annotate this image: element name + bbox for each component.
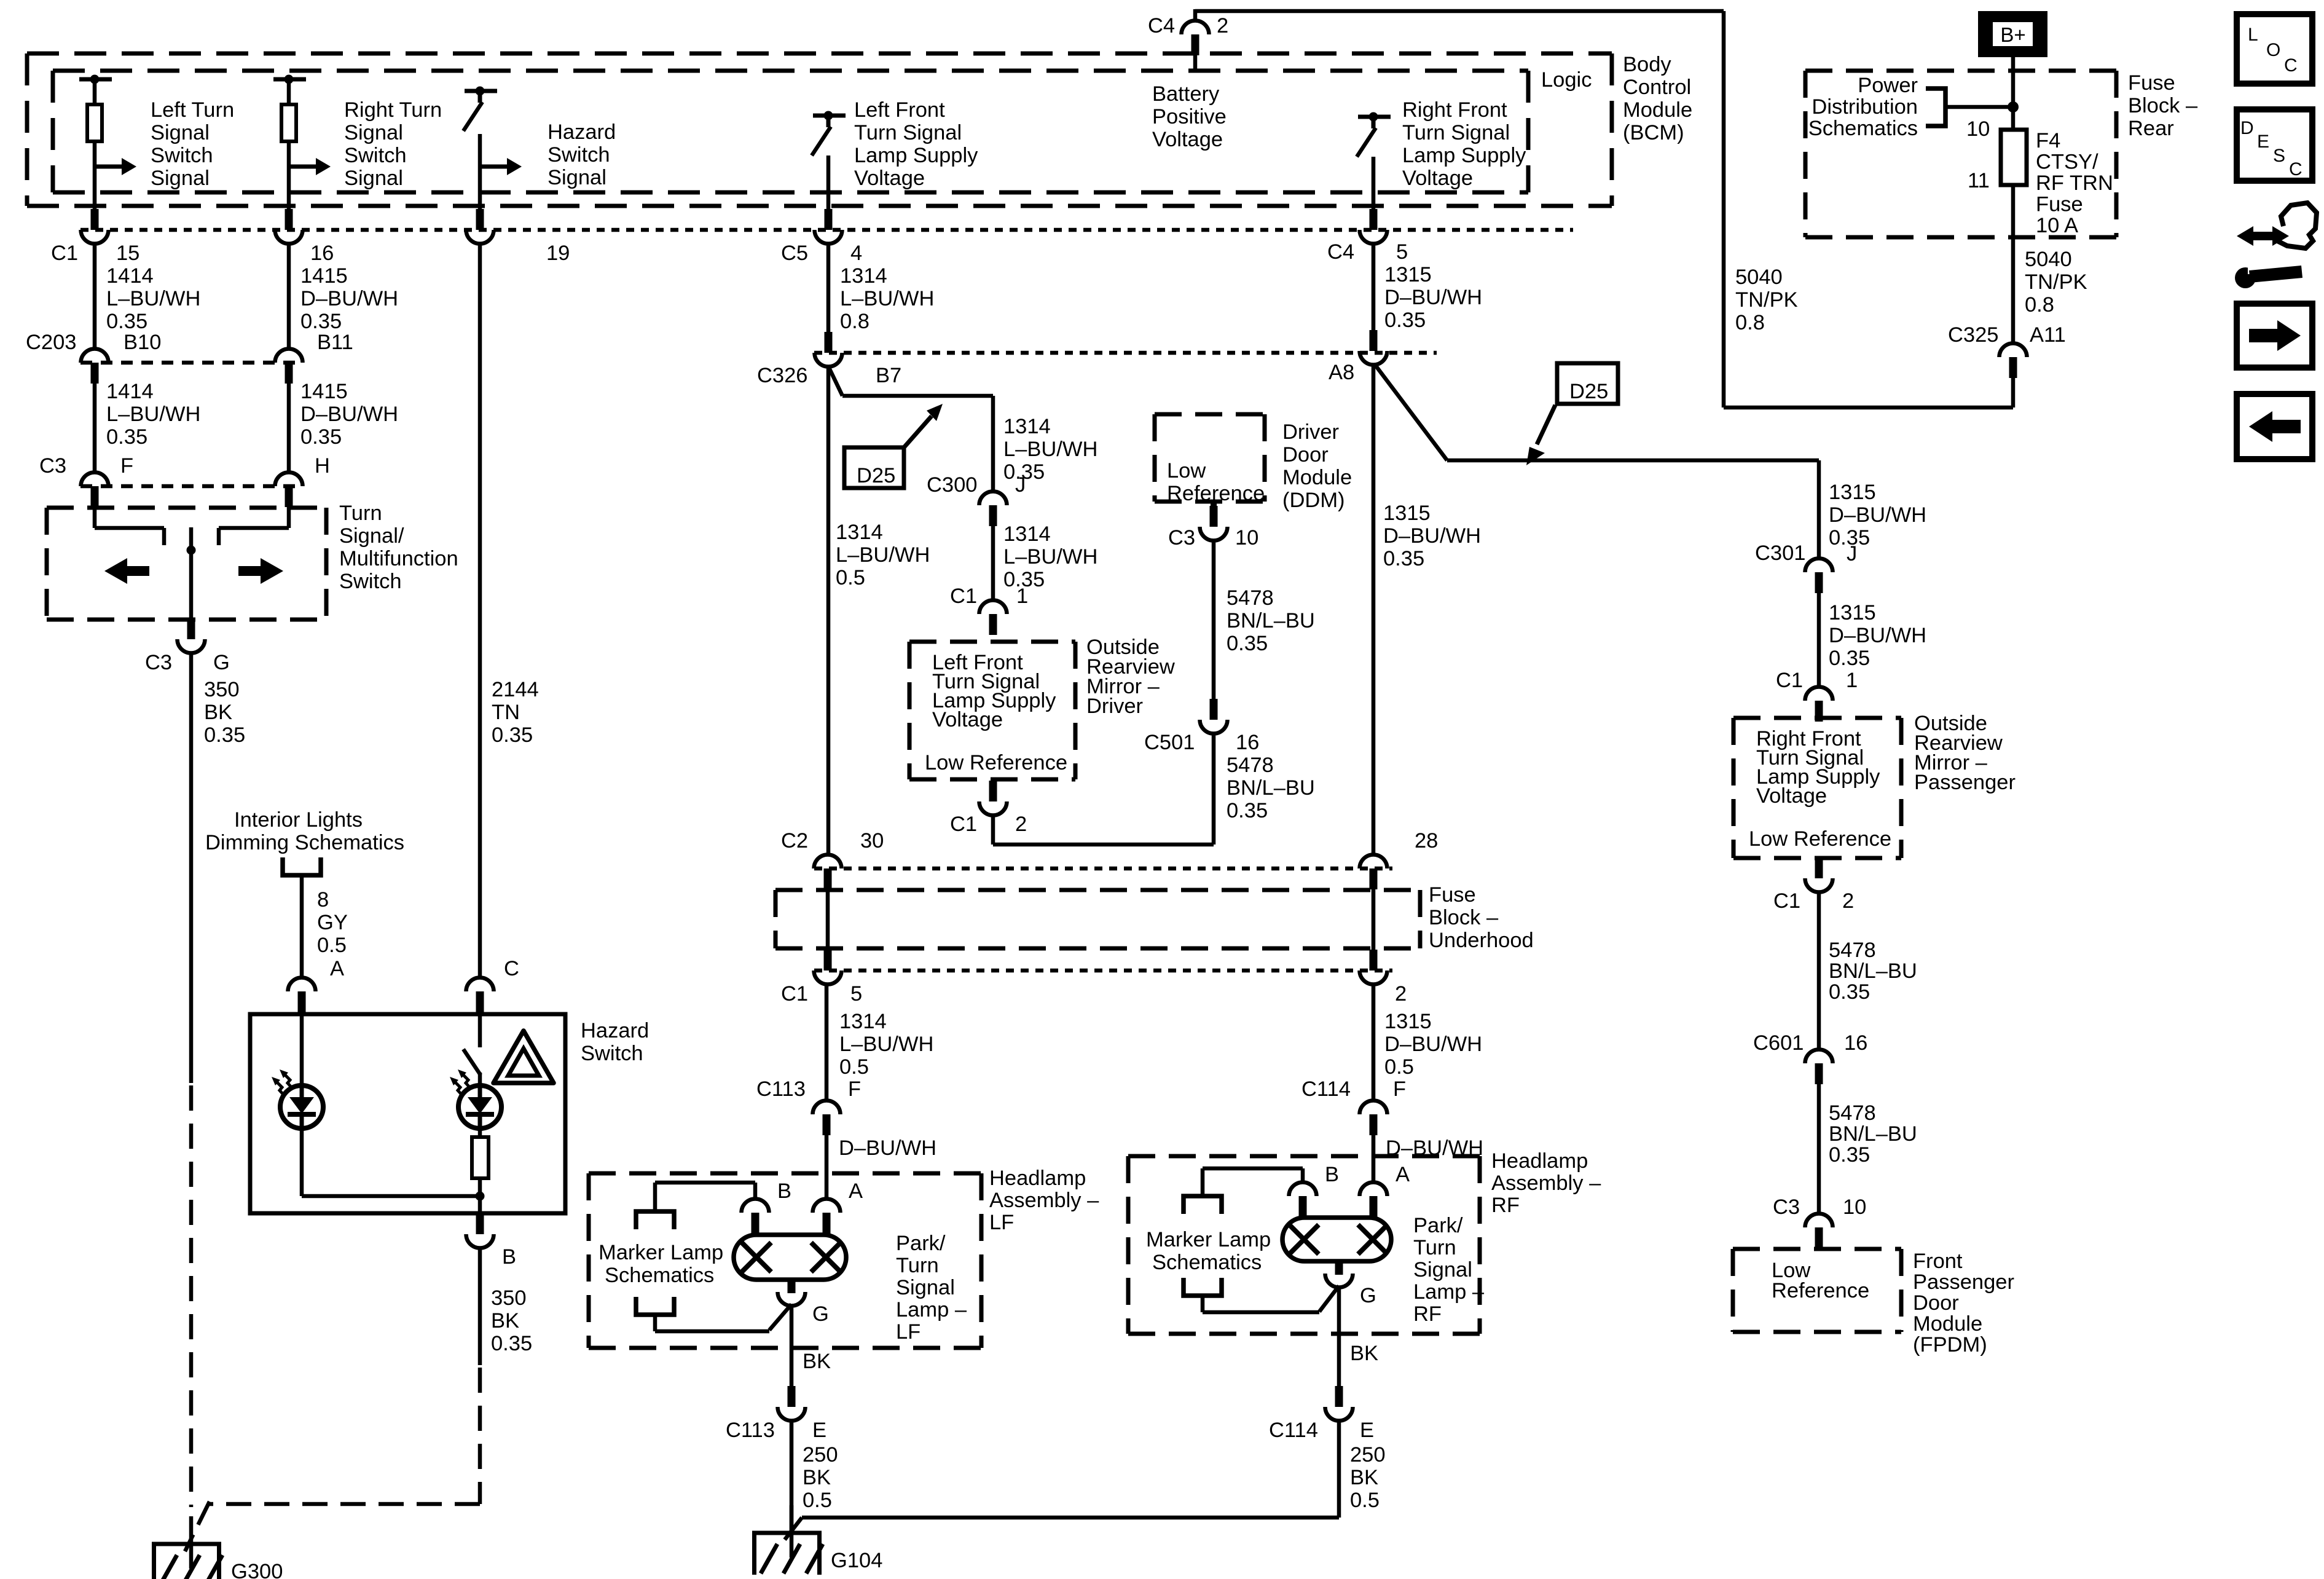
svg-text:BN/L–BU: BN/L–BU [1829,959,1917,983]
svg-text:Switch: Switch [581,1042,643,1065]
svg-text:Schematics: Schematics [1152,1251,1262,1274]
svg-text:G104: G104 [831,1549,882,1572]
svg-text:30: 30 [860,829,884,853]
wire [1301,1168,1305,1182]
svg-text:Marker Lamp: Marker Lamp [1146,1228,1271,1251]
resistor left turn pull-up [87,104,102,141]
svg-text:BK: BK [803,1466,831,1489]
connector C1 pin 2 [989,781,997,801]
arrow left turn indicator [126,566,149,576]
svg-text:1: 1 [1846,669,1858,692]
wire 350 BK [189,653,194,1083]
svg-text:5: 5 [1396,240,1408,264]
svg-text:Voltage: Voltage [1402,167,1473,190]
wire [753,1183,758,1199]
wire BK [1337,1287,1341,1386]
svg-text:Logic: Logic [1541,68,1592,92]
svg-text:5: 5 [850,982,862,1006]
svg-text:LF: LF [989,1211,1014,1234]
svg-text:D–BU/WH: D–BU/WH [300,403,398,426]
wire [93,506,97,528]
svg-text:E: E [812,1419,826,1442]
svg-text:Front: Front [1913,1250,1963,1273]
wire [93,79,97,104]
svg-text:Signal: Signal [151,167,210,190]
ground G104 [752,1531,822,1535]
wire [478,1012,482,1047]
LED hazard indicator right [458,1085,501,1128]
svg-text:(FPDM): (FPDM) [1913,1333,1987,1357]
svg-text:1: 1 [1016,585,1028,608]
svg-text:Signal: Signal [548,166,607,189]
wire [1372,984,1376,1100]
svg-text:B: B [502,1245,516,1269]
svg-text:C113: C113 [726,1419,775,1442]
svg-text:1315: 1315 [1384,263,1432,286]
svg-text:Distribution: Distribution [1812,95,1918,119]
wire [826,889,830,950]
arrow D25 to A8 branch [1537,405,1555,444]
wire [1817,892,1821,1049]
svg-text:0.35: 0.35 [1227,799,1268,822]
svg-text:16: 16 [310,242,334,265]
svg-text:(BCM): (BCM) [1623,121,1684,144]
svg-text:10: 10 [1966,117,1990,141]
svg-text:0.8: 0.8 [840,310,870,333]
svg-text:Turn: Turn [339,502,382,525]
svg-text:D25: D25 [1569,380,1608,403]
D25 reference box 2 [1557,363,1618,404]
wire 1315 D-BU/WH [1372,365,1376,855]
legend back arrow box [2237,394,2312,459]
svg-text:Voltage: Voltage [1756,784,1827,808]
svg-text:0.35: 0.35 [1829,1143,1870,1167]
connector C1 pin 15 [91,209,99,230]
svg-text:2: 2 [1015,813,1027,836]
dashed ground path [189,1085,194,1507]
svg-text:Headlamp: Headlamp [1491,1149,1588,1173]
svg-text:Switch: Switch [548,143,610,167]
Headlamp Assembly RF dashed box [1128,1154,1480,1159]
wire [2011,378,2016,408]
svg-text:Lamp Supply: Lamp Supply [1402,144,1526,167]
svg-text:O: O [2266,40,2280,60]
svg-text:0.8: 0.8 [1735,311,1765,334]
node left turn top junction [79,77,112,82]
connector C1 pin 19 [476,209,484,230]
svg-text:0.35: 0.35 [492,723,533,747]
svg-text:Passenger: Passenger [1914,771,2016,794]
connector hazard pin B [476,1213,484,1234]
svg-text:Underhood: Underhood [1429,929,1534,952]
svg-text:0.35: 0.35 [106,425,147,449]
svg-text:Control: Control [1623,76,1691,99]
wire 250 BK [790,1420,794,1530]
svg-text:Fuse: Fuse [1429,883,1476,907]
svg-text:2: 2 [1395,982,1407,1006]
svg-text:Interior Lights: Interior Lights [234,808,363,832]
svg-text:D–BU/WH: D–BU/WH [1384,286,1482,309]
svg-text:D25: D25 [857,464,895,487]
connector row C2 dotted line [814,867,1392,871]
svg-text:0.5: 0.5 [803,1489,832,1512]
svg-text:C501: C501 [1144,731,1195,754]
svg-text:Switch: Switch [339,570,402,593]
svg-text:Low: Low [1167,459,1206,482]
wire [1375,365,1447,460]
svg-text:Module: Module [1913,1312,1982,1336]
wire [478,1248,482,1365]
svg-text:A11: A11 [2030,323,2066,347]
connector C113 pin F [813,1101,841,1114]
svg-text:0.35: 0.35 [1383,547,1424,570]
svg-text:Block –: Block – [1429,906,1499,929]
svg-text:C3: C3 [145,651,172,674]
svg-text:D–BU/WH: D–BU/WH [1829,624,1926,647]
svg-text:Voltage: Voltage [1152,128,1223,151]
svg-text:C301: C301 [1755,541,1805,565]
svg-text:1415: 1415 [300,380,348,403]
Turn Signal/Multifunction Switch dashed box [47,506,326,510]
svg-text:16: 16 [1236,731,1259,754]
wire [93,141,97,210]
LED hazard indicator left [280,1085,323,1128]
connector C1 pin 1 [1805,687,1833,701]
connector lamp RF pin A [1360,1183,1388,1197]
svg-text:Signal: Signal [896,1276,955,1299]
svg-text:Voltage: Voltage [854,167,925,190]
svg-text:Marker Lamp: Marker Lamp [599,1241,723,1264]
switch right front turn lamp driver [1358,115,1391,119]
svg-text:Block –: Block – [2128,94,2198,117]
reference bracket power distribution [1926,89,1945,126]
svg-text:C114: C114 [1301,1077,1351,1101]
lamp Park/Turn Signal RF [1282,1218,1391,1261]
wire [189,550,194,620]
wire [991,815,995,845]
connector hazard pin A [288,978,316,992]
svg-text:0.5: 0.5 [317,934,347,957]
svg-text:5040: 5040 [1735,266,1783,289]
svg-text:A: A [849,1179,863,1203]
svg-text:B: B [777,1179,791,1203]
switch left front turn lamp driver [813,114,846,118]
connector lamp LF pin B [742,1199,769,1213]
wire 2144 TN [478,243,482,977]
svg-text:0.35: 0.35 [1829,980,1870,1004]
svg-text:28: 28 [1415,829,1438,853]
switch hazard input [465,89,497,93]
arrow D25 to B7 [904,416,932,447]
svg-text:15: 15 [116,242,139,265]
svg-text:BK: BK [803,1350,831,1373]
svg-text:Positive: Positive [1152,105,1227,128]
svg-text:G300: G300 [231,1560,283,1579]
svg-text:Assembly –: Assembly – [989,1189,1099,1212]
svg-text:5478: 5478 [1829,1101,1876,1125]
svg-text:5478: 5478 [1829,939,1876,962]
fuse F4 [2001,130,2027,185]
svg-text:Hazard: Hazard [581,1019,649,1042]
svg-text:Signal: Signal [344,121,403,144]
svg-text:RF: RF [1491,1194,1520,1217]
wire [2011,57,2016,136]
svg-text:0.35: 0.35 [491,1332,532,1355]
connector C300 pin J [979,492,1007,506]
wire BK [790,1305,794,1386]
svg-text:Fuse: Fuse [2036,193,2083,216]
svg-text:E: E [2257,132,2269,152]
svg-text:Lamp –: Lamp – [1413,1280,1485,1304]
wire [1945,105,2013,109]
svg-text:J: J [1847,542,1857,565]
dashed ground path [478,1368,482,1504]
svg-text:0.8: 0.8 [2025,293,2054,317]
svg-text:10: 10 [1235,526,1258,549]
connector C3 pin H [275,473,303,487]
wire [2011,185,2016,343]
battery feed B+ symbol [1978,11,2047,57]
connector C1 pin 1 [979,600,1007,614]
svg-text:BK: BK [491,1309,519,1333]
svg-text:BN/L–BU: BN/L–BU [1227,609,1315,632]
svg-text:Turn Signal: Turn Signal [1402,121,1510,144]
svg-text:S: S [2273,146,2285,166]
svg-text:F: F [1393,1077,1406,1101]
svg-text:0.35: 0.35 [300,425,342,449]
wire [769,1304,791,1330]
svg-text:B+: B+ [2000,23,2025,46]
Body Control Module outer dashed box [27,52,1612,56]
wire 1314 L-BU/WH [826,366,831,855]
svg-text:D–BU/WH: D–BU/WH [1829,503,1926,527]
wire [478,1178,482,1213]
svg-text:B11: B11 [317,331,353,354]
svg-text:19: 19 [546,242,570,265]
connector row C326/A8 dotted line [814,351,1437,355]
svg-text:F4: F4 [2036,129,2060,152]
resistor hazard LED [472,1137,489,1178]
wire [287,79,291,104]
reference bracket marker lamp return RF [1184,1278,1222,1296]
svg-text:A8: A8 [1329,361,1354,384]
wire battery feed loop [1195,9,1724,14]
wire 5478 BN/L-BU [1212,540,1216,699]
svg-text:0.5: 0.5 [1350,1489,1380,1512]
svg-text:Assembly –: Assembly – [1491,1171,1601,1195]
svg-text:1314: 1314 [840,264,887,288]
svg-text:L–BU/WH: L–BU/WH [836,543,930,567]
wire [825,984,829,1100]
svg-text:E: E [1360,1419,1374,1442]
wire [1372,243,1376,331]
wire 8 GY 0.5 [300,875,304,977]
connector A8 [1370,330,1378,351]
legend forward arrow box [2237,304,2312,368]
node hazard ground junction [476,1192,485,1201]
svg-text:1315: 1315 [1829,601,1876,624]
svg-text:Reference: Reference [1772,1279,1869,1302]
Fuse Block Rear dashed box [1805,69,2116,73]
resistor right turn pull-up [281,104,296,141]
svg-text:B10: B10 [124,331,161,354]
svg-text:1315: 1315 [1829,481,1876,504]
svg-text:BN/L–BU: BN/L–BU [1829,1122,1917,1146]
svg-text:(DDM): (DDM) [1282,489,1345,512]
connector C4 pin 2 [1182,21,1209,34]
lamp Park/Turn Signal LF [734,1235,846,1280]
wire [826,243,831,333]
svg-text:Turn Signal: Turn Signal [854,121,962,144]
connector lamp LF pin A [813,1199,841,1213]
wire [287,506,291,528]
svg-text:Module: Module [1623,98,1692,122]
svg-text:0.35: 0.35 [300,310,342,333]
svg-text:16: 16 [1844,1031,1867,1055]
connector lamp RF pin B [1289,1183,1317,1197]
svg-text:250: 250 [803,1443,838,1467]
wire [300,1012,304,1085]
connector hazard pin C [466,978,494,992]
svg-text:Dimming Schematics: Dimming Schematics [205,831,404,854]
svg-text:Driver: Driver [1282,420,1339,444]
connector C1 pin 2 [1370,950,1378,971]
svg-text:C1: C1 [1776,669,1803,692]
svg-text:TN/PK: TN/PK [1735,288,1798,312]
svg-text:Multifunction: Multifunction [339,547,458,570]
svg-text:1314: 1314 [1003,522,1051,546]
svg-text:D–BU/WH: D–BU/WH [839,1136,936,1160]
svg-text:BN/L–BU: BN/L–BU [1227,776,1315,800]
svg-text:TN/PK: TN/PK [2025,270,2087,294]
legend DESC box [2237,109,2312,181]
svg-text:Low Reference: Low Reference [1749,827,1891,851]
switch hazard contact [463,1049,481,1075]
connector C325 pin A11 [2000,344,2027,357]
connector C2 pin 30 [814,855,842,868]
svg-text:LF: LF [896,1320,921,1344]
svg-text:G: G [812,1302,829,1326]
connector C2 pin 28 [1360,855,1388,868]
svg-text:Park/: Park/ [1413,1214,1463,1237]
svg-text:Right Front: Right Front [1402,98,1507,122]
svg-text:C1: C1 [950,813,977,836]
svg-text:C5: C5 [781,242,808,265]
svg-text:Power: Power [1858,74,1918,97]
svg-text:C4: C4 [1148,14,1175,37]
svg-text:A: A [1396,1163,1410,1186]
svg-text:Right Turn: Right Turn [344,98,442,122]
svg-text:10 A: 10 A [2036,214,2078,237]
svg-text:C300: C300 [927,473,977,497]
Hazard Switch box [250,1014,565,1213]
arrow right turn indicator [238,566,262,576]
svg-text:L–BU/WH: L–BU/WH [1003,438,1097,461]
svg-text:C: C [2284,55,2298,76]
node fuse feed junction [2008,101,2019,112]
svg-text:2: 2 [1842,889,1854,913]
svg-text:2144: 2144 [492,678,539,701]
svg-text:D–BU/WH: D–BU/WH [1383,524,1481,548]
wire [478,1128,482,1137]
svg-text:BK: BK [1350,1342,1378,1365]
svg-text:C: C [504,957,519,980]
reference bracket marker lamp return LF [636,1297,674,1315]
Driver Door Module dashed box [1155,412,1265,417]
Front Passenger Door Module dashed box [1733,1247,1901,1251]
svg-text:C1: C1 [950,585,977,608]
svg-text:Door: Door [1913,1291,1959,1315]
svg-text:G: G [1360,1284,1376,1307]
reference bracket interior lights [283,857,321,875]
svg-text:D: D [2240,118,2254,138]
svg-text:L–BU/WH: L–BU/WH [1003,545,1097,569]
connector C203 pin B10 [81,349,109,363]
connector row C3 dotted line [80,484,303,489]
svg-text:Fuse: Fuse [2128,71,2175,95]
wire [828,366,842,396]
svg-text:C3: C3 [39,454,66,478]
svg-text:G: G [213,651,230,674]
connector lamp LF pin G [788,1280,796,1293]
svg-text:F: F [848,1077,861,1101]
svg-text:1414: 1414 [106,264,154,288]
wire [1372,1135,1376,1183]
svg-text:350: 350 [491,1286,527,1310]
svg-text:C601: C601 [1753,1031,1804,1055]
svg-text:C114: C114 [1269,1419,1318,1442]
svg-text:2: 2 [1217,14,1228,37]
legend pointer icon [2237,226,2289,246]
svg-text:5040: 5040 [2025,248,2072,271]
svg-text:0.5: 0.5 [839,1055,869,1079]
svg-text:Module: Module [1282,466,1352,489]
wire [1193,9,1198,20]
svg-text:GY: GY [317,911,348,934]
node right turn top junction [273,77,306,82]
wire [478,1073,482,1085]
arrow left turn signal output [95,165,124,169]
wire [300,1128,304,1196]
ground G300 [152,1542,221,1546]
Headlamp Assembly LF dashed box [589,1171,981,1176]
svg-text:Schematics: Schematics [1808,117,1918,140]
wire [478,134,482,210]
svg-text:A: A [330,957,344,980]
wire [991,526,995,600]
svg-text:0.5: 0.5 [836,566,865,589]
svg-text:0.35: 0.35 [1227,632,1268,655]
wire [287,384,291,472]
connector C1 pin 16 [285,209,293,230]
svg-text:0.35: 0.35 [204,723,245,747]
connector row C1 dotted line [814,969,1392,973]
Outside Rearview Mirror Driver dashed box [909,640,1075,644]
reference bracket marker lamp feed LF [636,1211,674,1229]
connector C3 pin F [81,473,109,487]
svg-text:Driver: Driver [1086,695,1143,718]
svg-text:C3: C3 [1773,1195,1800,1219]
svg-text:D–BU/WH: D–BU/WH [300,287,398,310]
connector C5 pin 4 [825,209,833,230]
svg-text:11: 11 [1968,169,1990,192]
svg-text:1314: 1314 [1003,415,1051,438]
svg-text:F: F [120,454,133,478]
svg-text:Lamp –: Lamp – [896,1298,967,1321]
svg-text:Rear: Rear [2128,117,2174,140]
svg-text:Hazard: Hazard [548,120,616,144]
svg-text:C203: C203 [26,331,76,354]
